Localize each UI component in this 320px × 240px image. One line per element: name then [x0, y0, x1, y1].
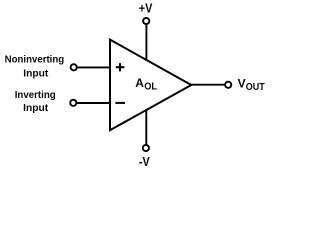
wire noninverting input — [77, 66, 110, 68]
terminal +V — [143, 18, 149, 24]
label Inverting Input — [15, 90, 56, 114]
svg-text:OL: OL — [144, 81, 157, 92]
wire -V supply — [145, 109, 147, 145]
label AOL open-loop gain — [135, 76, 157, 92]
wire output — [190, 84, 225, 86]
plus sign at noninverting pin — [116, 63, 125, 71]
svg-text:OUT: OUT — [246, 82, 265, 93]
svg-text:Inverting: Inverting — [15, 90, 56, 101]
op-amp U1 triangle — [110, 40, 191, 131]
svg-text:-V: -V — [139, 154, 150, 169]
terminal inverting input — [70, 100, 76, 106]
svg-text:Input: Input — [23, 68, 49, 79]
svg-text:V: V — [238, 76, 246, 90]
svg-text:A: A — [135, 76, 144, 90]
svg-text:Noninverting: Noninverting — [5, 55, 65, 66]
wire +V supply — [145, 25, 147, 62]
terminal noninverting input — [71, 64, 77, 70]
svg-text:+V: +V — [139, 0, 153, 15]
label Noninverting Input — [5, 55, 65, 80]
minus sign at inverting pin — [115, 102, 125, 104]
svg-text:Input: Input — [23, 103, 49, 114]
wire inverting input — [77, 102, 110, 104]
terminal output — [225, 82, 231, 88]
terminal -V — [143, 145, 149, 151]
label VOUT — [238, 76, 265, 93]
